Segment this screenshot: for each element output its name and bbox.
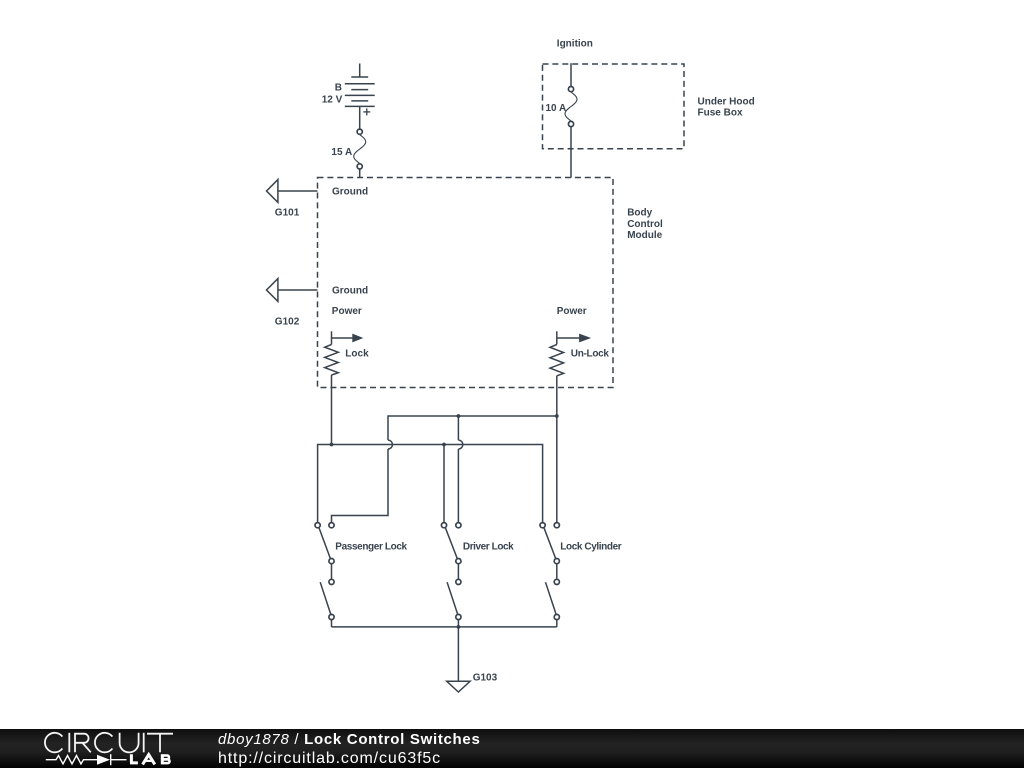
label Ground (pin 2) xyxy=(332,286,368,297)
wire hop over lower bus at x=388 xyxy=(388,440,392,449)
svg-text:G103: G103 xyxy=(473,673,498,684)
ground flag G101 xyxy=(267,180,278,203)
wire bottom bus to ground G103 xyxy=(457,627,459,681)
svg-text:Ground: Ground xyxy=(332,187,368,198)
svg-text:Driver Lock: Driver Lock xyxy=(463,541,514,552)
label Passenger Lock xyxy=(335,541,407,552)
svg-text:Power: Power xyxy=(332,306,362,317)
svg-text:G101: G101 xyxy=(275,208,300,219)
fuse F2 10 A xyxy=(565,87,577,127)
wire G102 to BCM xyxy=(278,289,318,291)
fuse value label 15 A xyxy=(331,147,352,158)
battery B top terminal stub xyxy=(359,64,361,78)
battery plus sign xyxy=(363,108,370,115)
logo resistor-diode underline xyxy=(46,754,127,765)
junction dot upper bus / driver tap xyxy=(457,414,461,418)
resistor Lock xyxy=(325,345,339,376)
wire Un-Lock resistor to lock cylinder (node UNLOCK) xyxy=(556,376,558,523)
fuse F1 15 A xyxy=(354,129,366,169)
upper bus wire (lock feed) xyxy=(388,416,557,440)
logo wordmark LAB xyxy=(130,754,170,764)
wire G101 to BCM xyxy=(278,190,318,192)
svg-text:Ground: Ground xyxy=(332,286,368,297)
label Un-Lock xyxy=(571,349,610,360)
label Lock Cylinder xyxy=(560,542,621,553)
wire fuse F2 to BCM xyxy=(570,127,572,178)
ground flag G102 xyxy=(267,279,278,302)
label Ignition xyxy=(557,38,593,49)
label Under Hood Fuse Box xyxy=(698,96,755,118)
switch SW1 Passenger Lock xyxy=(315,523,334,627)
label Body Control Module xyxy=(627,208,663,241)
junction dot un-lock / upper bus xyxy=(555,414,559,418)
junction dot lock wire / lower bus xyxy=(330,443,334,447)
lower bus wire (ground side) xyxy=(318,445,543,523)
power arrow (lock side) xyxy=(332,331,364,344)
wire fuse F1 to BCM xyxy=(359,169,361,177)
svg-text:Un-Lock: Un-Lock xyxy=(571,349,610,360)
under hood fuse box (dashed) xyxy=(543,64,685,149)
fuse value label 10 A xyxy=(546,103,567,114)
ground G103 xyxy=(447,681,470,692)
junction dot lower bus / driver left tap xyxy=(442,443,446,447)
switch SW3 Lock Cylinder xyxy=(540,523,559,627)
power arrow (un-lock side) xyxy=(557,331,591,344)
wire ignition to fuse F2 xyxy=(570,63,572,86)
footer caption xyxy=(218,731,481,768)
footer bar xyxy=(0,729,1024,768)
wire upper bus down to passenger right terminal xyxy=(332,449,389,522)
svg-text:Module: Module xyxy=(627,230,662,241)
label Driver Lock xyxy=(463,541,514,552)
svg-text:Ignition: Ignition xyxy=(557,38,593,49)
svg-text:15 A: 15 A xyxy=(331,147,352,158)
CircuitLab logo xyxy=(0,729,200,768)
resistor Un-Lock xyxy=(550,345,564,376)
label G102 xyxy=(275,316,300,327)
label Lock xyxy=(345,348,369,359)
label Power (un-lock side) xyxy=(557,306,587,317)
label G101 xyxy=(275,208,300,219)
wire lower bus to driver left terminal xyxy=(443,445,445,523)
wire upper bus tap to driver right terminal (upper part) xyxy=(457,416,459,440)
wire battery to fuse F1 xyxy=(359,106,361,128)
svg-text:Body: Body xyxy=(627,208,652,219)
body control module box (dashed) xyxy=(318,178,614,388)
label Power (lock side) xyxy=(332,306,362,317)
svg-text:B: B xyxy=(335,82,342,93)
label Ground (pin 1) xyxy=(332,187,368,198)
wire to driver right terminal (lower part) xyxy=(457,449,459,522)
svg-text:Under Hood: Under Hood xyxy=(698,96,755,107)
svg-text:Control: Control xyxy=(627,219,663,230)
svg-text:10 A: 10 A xyxy=(546,103,567,114)
svg-text:Power: Power xyxy=(557,306,587,317)
battery label B 12 V xyxy=(322,82,343,105)
svg-text:G102: G102 xyxy=(275,316,300,327)
switch SW2 Driver Lock xyxy=(441,523,461,627)
wire Lock resistor to lower bus xyxy=(331,375,333,445)
svg-text:Passenger Lock: Passenger Lock xyxy=(335,541,407,552)
bottom bus wire to ground xyxy=(332,626,557,628)
svg-text:12 V: 12 V xyxy=(322,95,343,106)
battery B plates xyxy=(345,77,375,106)
junction dot bottom bus / ground tap xyxy=(457,625,461,629)
wire hop over lower bus at x=458.4 xyxy=(458,440,462,449)
svg-text:Lock Cylinder: Lock Cylinder xyxy=(560,542,621,553)
svg-text:Lock: Lock xyxy=(345,348,369,359)
logo wordmark CIRCUIT xyxy=(45,733,173,753)
svg-text:Fuse Box: Fuse Box xyxy=(698,108,743,119)
label G103 xyxy=(473,673,498,684)
